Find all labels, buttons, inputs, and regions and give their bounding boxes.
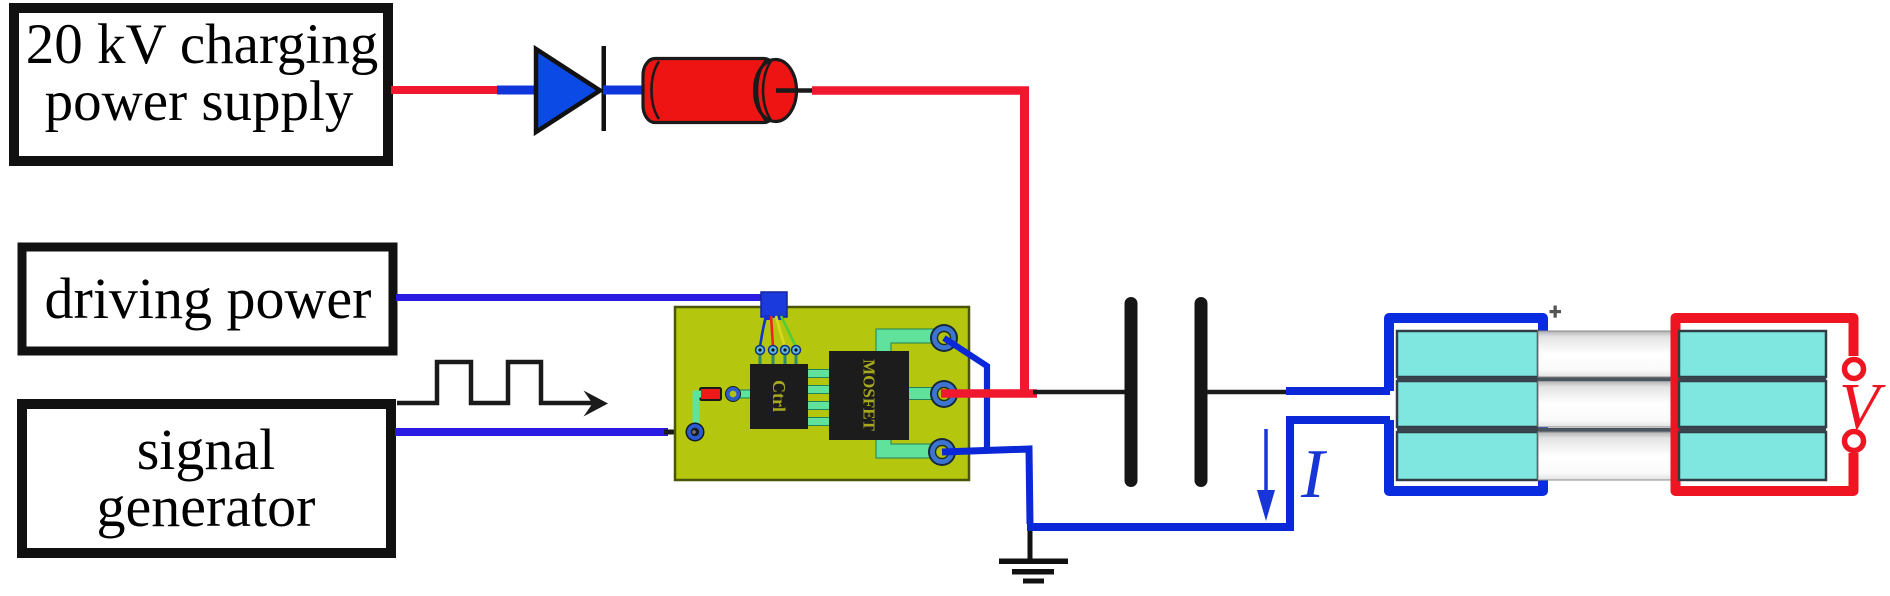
svg-text:I: I (1300, 436, 1328, 513)
wire: red stub to MOSFET drain connector (941, 389, 1037, 398)
wire: blue bottom run to load (1027, 420, 1390, 527)
diode D1 (536, 49, 600, 132)
svg-text:power supply: power supply (45, 70, 354, 133)
wire: black from capacitor right plate (1206, 390, 1290, 395)
box: driving power (22, 247, 393, 351)
wire: blue to load top terminal (1286, 387, 1390, 395)
pin stems into Ctrl chip (760, 352, 796, 366)
plus mark (1550, 306, 1562, 318)
pins (756, 346, 801, 355)
capacitor C left plate (1125, 297, 1138, 487)
connector top (source sense) (930, 324, 958, 352)
svg-text:generator: generator (97, 474, 316, 539)
wire: black to capacitor left plate (1033, 390, 1126, 395)
connector middle (drain) (930, 380, 958, 408)
wire: blue diode anode lead (497, 86, 540, 95)
wire: blue from signal generator (395, 428, 668, 436)
pulse waveform with arrow (397, 362, 598, 403)
red component on PCB (700, 388, 721, 400)
cyan traces between chips (739, 329, 939, 458)
wire: red vertical drop (1020, 87, 1029, 397)
connector bottom (source) (928, 438, 956, 466)
trace: red comp to signal connector (696, 394, 701, 427)
resistor lead black (776, 88, 816, 93)
pulse arrowhead (584, 391, 609, 417)
svg-text:Ctrl: Ctrl (769, 380, 789, 412)
box: signal generator (22, 404, 391, 553)
box: 20 kV charging power supply (14, 8, 388, 161)
blue connector on PCB top (761, 292, 787, 317)
svg-text:V: V (1839, 370, 1886, 443)
gray dielectric bands (1538, 331, 1676, 480)
svg-text:20 kV charging: 20 kV charging (26, 13, 379, 76)
left cyan plates (1397, 331, 1538, 480)
wire: blue from top connector down (944, 338, 987, 450)
right cyan plates (1679, 331, 1826, 480)
ground (999, 524, 1068, 584)
wire: blue from bottom connector to ground node (942, 449, 1030, 524)
wire: blue diode cathode lead (603, 86, 646, 95)
MOSFET chip (829, 351, 909, 440)
svg-text:signal: signal (137, 417, 276, 482)
wire: black tip of signal wire (664, 430, 690, 435)
wire: red from charging supply (391, 86, 505, 94)
resistor R (red cylinder) (643, 59, 816, 123)
trace: MOSFET drain (907, 388, 939, 400)
diode cathode bar (602, 46, 607, 131)
fan-out wires from connector (760, 316, 766, 347)
PCB board (675, 307, 969, 480)
svg-text:MOSFET: MOSFET (860, 359, 879, 431)
pad ring left of Ctrl (725, 386, 741, 402)
wire: red to top-right corner (812, 86, 1029, 95)
capacitor C right plate (1195, 297, 1208, 487)
Ctrl chip (750, 364, 808, 429)
V terminal bottom (1845, 432, 1864, 451)
signal input connector on PCB (686, 423, 705, 442)
wire: blue from driving power (396, 294, 766, 301)
trace: MOSFET top L (876, 329, 936, 355)
trace: MOSFET bottom L (876, 436, 938, 458)
trace: pad to Ctrl (739, 390, 751, 398)
V terminal top (1845, 360, 1864, 379)
current arrow I (1264, 429, 1268, 496)
blue frame of load (left electrode) (1389, 318, 1543, 491)
red frame of load (right electrode) (1676, 318, 1854, 491)
svg-text:driving power: driving power (45, 266, 372, 331)
